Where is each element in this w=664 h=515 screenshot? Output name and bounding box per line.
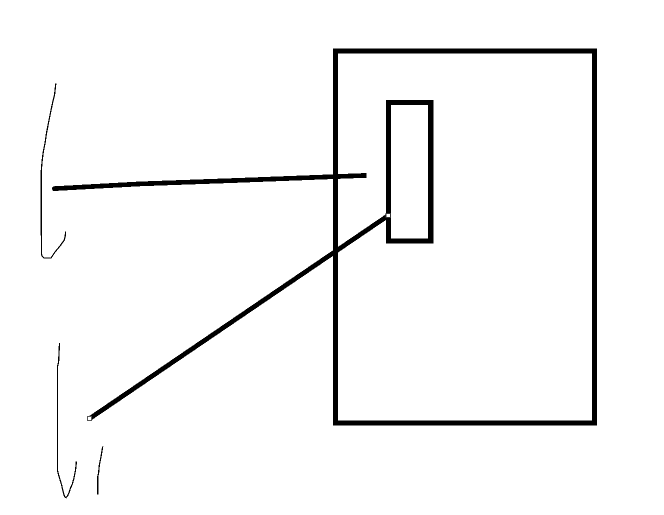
handle square lower end of diagonal <box>87 417 91 421</box>
large rectangle <box>336 51 595 423</box>
pencil squiggle lower-left V <box>57 343 76 498</box>
thick diagonal line <box>90 216 389 419</box>
rounded start nub of horizontal line <box>52 186 57 191</box>
pencil stroke small lower-left <box>98 447 103 495</box>
small rectangle <box>389 103 431 241</box>
thick horizontal line <box>53 175 366 188</box>
handle square upper end of diagonal <box>386 213 390 217</box>
pencil squiggle upper-left <box>41 84 65 258</box>
